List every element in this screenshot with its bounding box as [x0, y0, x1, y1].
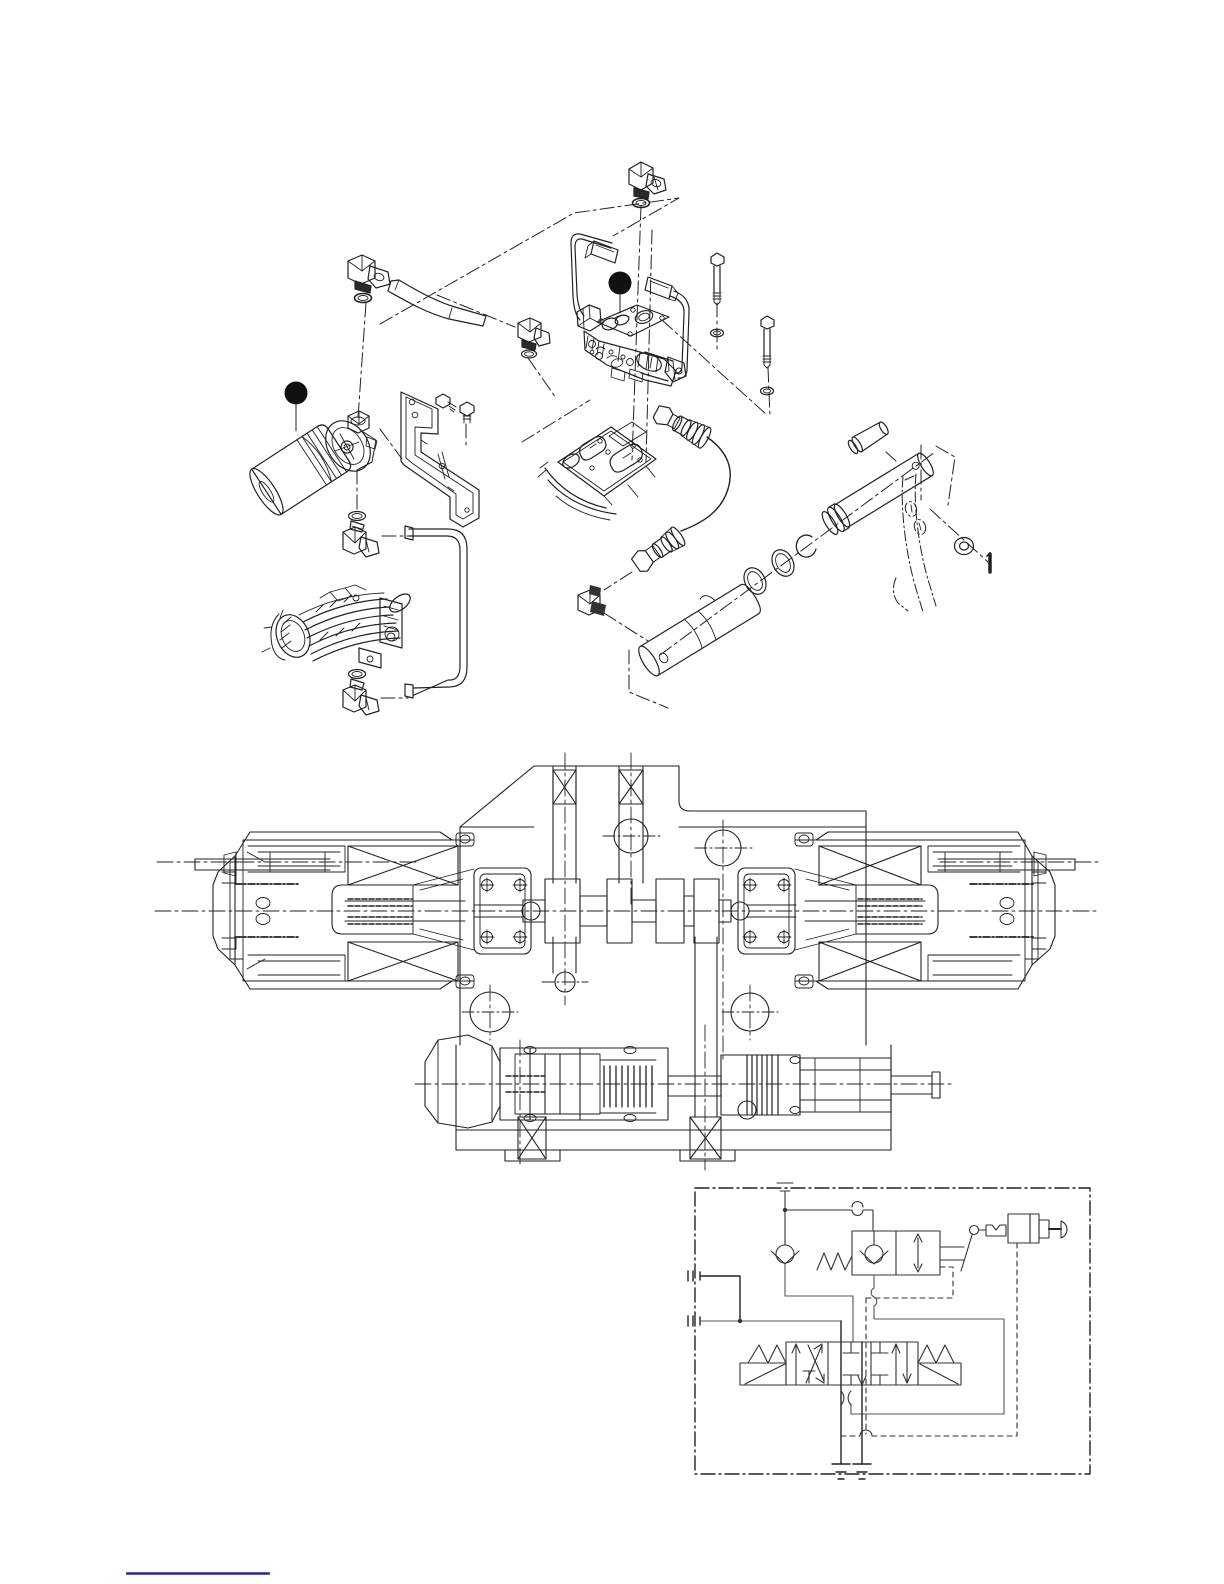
valve right pipe [670, 291, 689, 378]
lift arm hidden outline [893, 474, 936, 612]
head body side [357, 430, 376, 470]
spool center blocks [523, 879, 731, 943]
centerline rod left [157, 861, 420, 863]
top circle A [614, 819, 648, 853]
main line P to valve [840, 1321, 842, 1464]
outer shell [235, 832, 474, 989]
right body [800, 1058, 891, 1112]
screw S2 [460, 402, 474, 423]
wire tank to pilot valve [785, 1210, 873, 1231]
pilot dashed from cylinder [1016, 1243, 1018, 1436]
hose from coupler [681, 437, 730, 531]
footer rule [127, 1572, 269, 1574]
vertical centerlines [564, 753, 566, 1005]
funnel [413, 869, 474, 950]
coil X-box bottom [348, 942, 458, 981]
valve U-pipe left [571, 234, 612, 248]
right cylinder + hex plug [634, 349, 664, 374]
kidney cutouts [580, 437, 606, 460]
O-ring P2 [768, 546, 799, 580]
screw S1 [436, 394, 456, 412]
tank symbols bottom [832, 1464, 850, 1479]
throttle symbol [841, 1391, 851, 1405]
snap ring [796, 535, 816, 557]
end details left [222, 872, 236, 949]
top bits [330, 588, 352, 601]
centerline rod right [940, 861, 1100, 863]
cell1 arrows [792, 1344, 800, 1385]
spool ball right [731, 902, 749, 920]
oil filter cartridge [244, 422, 353, 519]
upper cylinder tube [819, 450, 937, 537]
clevis pin [846, 419, 891, 455]
center small fitting [518, 318, 550, 358]
bolt B1 [711, 253, 725, 337]
actuator link lines [940, 1247, 964, 1260]
fitting under filter head: o-ring [349, 512, 366, 521]
spring hatch [345, 901, 465, 921]
main casting [584, 331, 676, 386]
check valve CV2 inside valve [873, 1231, 875, 1245]
lower band A continue [553, 937, 576, 973]
port P2 left [688, 1316, 700, 1326]
mounting bracket [401, 392, 479, 527]
outer shell [795, 832, 1032, 989]
detent cylinder [1008, 1214, 1030, 1243]
small elbow fitting bottom [578, 585, 606, 616]
slab outline [456, 1045, 891, 1150]
mount plate [738, 868, 795, 954]
feet [505, 1150, 735, 1161]
main centerline [155, 910, 1100, 912]
connector rod [195, 859, 330, 870]
pilot rod [474, 905, 523, 917]
node junction dot [783, 1208, 787, 1212]
directional control valve body [786, 1342, 918, 1385]
black dot callout A [609, 272, 632, 295]
vertical channel to lower section [695, 937, 717, 1117]
X-box foot right [690, 1117, 721, 1159]
right spring + solenoid box [918, 1363, 961, 1385]
spool ball left [522, 902, 540, 920]
valve body [577, 305, 686, 386]
mount plate [474, 868, 531, 954]
plunger middle [668, 1076, 721, 1096]
left spring + solenoid box [740, 1363, 786, 1385]
pilot rod [747, 905, 796, 917]
coupler 2 [630, 525, 687, 574]
right cartridge [721, 1055, 800, 1115]
inner sleeve top [248, 846, 345, 872]
cell3 symbols [872, 1342, 888, 1353]
centerline lower [415, 1083, 955, 1085]
connector rod [938, 859, 1075, 870]
housing below [545, 468, 606, 508]
bottom tab [359, 648, 381, 668]
rod right [891, 1072, 940, 1098]
left elbow fitting [348, 255, 390, 303]
cable lug left [591, 241, 618, 263]
elbow fitting lower-left B [343, 685, 379, 715]
cable lug right [645, 277, 672, 299]
O-ring P1 [740, 564, 771, 598]
bottom circle right [731, 993, 769, 1031]
center manifold block [538, 422, 656, 520]
hose loop [405, 526, 467, 698]
filter head [317, 411, 380, 480]
top circle B [705, 830, 741, 866]
unload pilot valve 2-position [852, 1231, 940, 1275]
lever [961, 1235, 972, 1271]
tubes [303, 599, 387, 622]
coil X-box top [348, 846, 458, 885]
top nipple [348, 411, 369, 433]
tank T top [777, 1183, 793, 1210]
black dot callout B [285, 382, 308, 405]
lower-left manifold assembly [262, 585, 413, 668]
inner sleeve [928, 846, 1020, 872]
hex cap left [425, 1035, 500, 1128]
washer [955, 538, 974, 555]
coupler 1 [651, 402, 713, 450]
flow arrow in right cell [914, 1234, 922, 1272]
pilot dashed from valve [866, 1267, 953, 1298]
coil X-box top [819, 846, 921, 885]
armature cavity [856, 885, 938, 934]
funnel [795, 869, 856, 950]
coil X-box bottom [819, 942, 921, 981]
top port band B [619, 766, 643, 883]
cell2 blocked ports [843, 1342, 859, 1353]
hydraulic cylinder tube lower [630, 573, 764, 678]
elbow fitting lower-left A [343, 527, 379, 557]
armature cavity [332, 885, 413, 934]
small circle on band [555, 972, 575, 992]
left hex boss [577, 305, 601, 331]
handle tube [388, 280, 486, 326]
fitting under filter head: seat [350, 521, 364, 532]
top plate [597, 305, 669, 336]
inner sleeve bottom [248, 955, 345, 981]
bolt B2 [761, 316, 775, 395]
spring hatch [805, 901, 925, 921]
elbow fitting top [629, 162, 666, 208]
o-ring lower B [349, 670, 366, 679]
mount bolts [480, 878, 527, 944]
port P1 left [688, 1271, 700, 1281]
top port band A [553, 766, 576, 883]
spring shims [604, 1066, 652, 1107]
check valve CV1 [784, 1210, 786, 1245]
hose crossing bridge [852, 1202, 863, 1216]
center body outline [460, 766, 866, 827]
schematic enclosure dash-dot border [695, 1188, 1090, 1474]
cartridge left [500, 1048, 668, 1120]
X-box foot left [518, 1117, 546, 1159]
part pin 1 [988, 554, 992, 572]
right block [380, 598, 402, 648]
spring (relief) [817, 1253, 852, 1270]
boundary dash-dot lines [357, 198, 988, 708]
bottom circle left [470, 992, 510, 1032]
hose symbol under pilot valve [873, 1275, 875, 1288]
